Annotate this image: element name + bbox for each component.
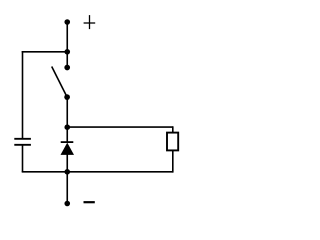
wire left vertical below capacitor: [22, 145, 24, 172]
node junction top (wire to capacitor branch): [64, 49, 70, 55]
diode D1 triangle: [61, 143, 75, 155]
wire below diode: [66, 154, 68, 172]
wire right vertical below resistor: [172, 150, 174, 172]
wire bottom vertical to - terminal: [66, 172, 68, 204]
switch S1 bottom contact: [64, 94, 70, 100]
wire top vertical from + terminal to switch: [66, 22, 68, 68]
resistor R1: [167, 133, 178, 151]
node + terminal top dot: [64, 19, 70, 25]
wire horizontal top-left to capacitor branch: [22, 51, 68, 53]
node junction middle (wire to resistor branch): [64, 124, 70, 130]
label - (negative terminal): [84, 201, 95, 203]
label + (positive terminal): [84, 15, 96, 29]
switch S1 top contact: [64, 65, 70, 71]
wire right vertical to resistor: [172, 126, 174, 133]
wire bottom horizontal rail: [22, 171, 173, 173]
node junction bottom: [64, 169, 70, 175]
wire horizontal to resistor branch: [67, 126, 173, 128]
capacitor C1: [14, 139, 31, 145]
node - terminal bottom dot: [64, 201, 70, 207]
wire left vertical down to capacitor: [22, 51, 24, 139]
diode D1 cathode bar: [61, 141, 74, 143]
switch S1 blade: [52, 67, 67, 98]
wire middle vertical from switch to diode: [66, 97, 68, 142]
